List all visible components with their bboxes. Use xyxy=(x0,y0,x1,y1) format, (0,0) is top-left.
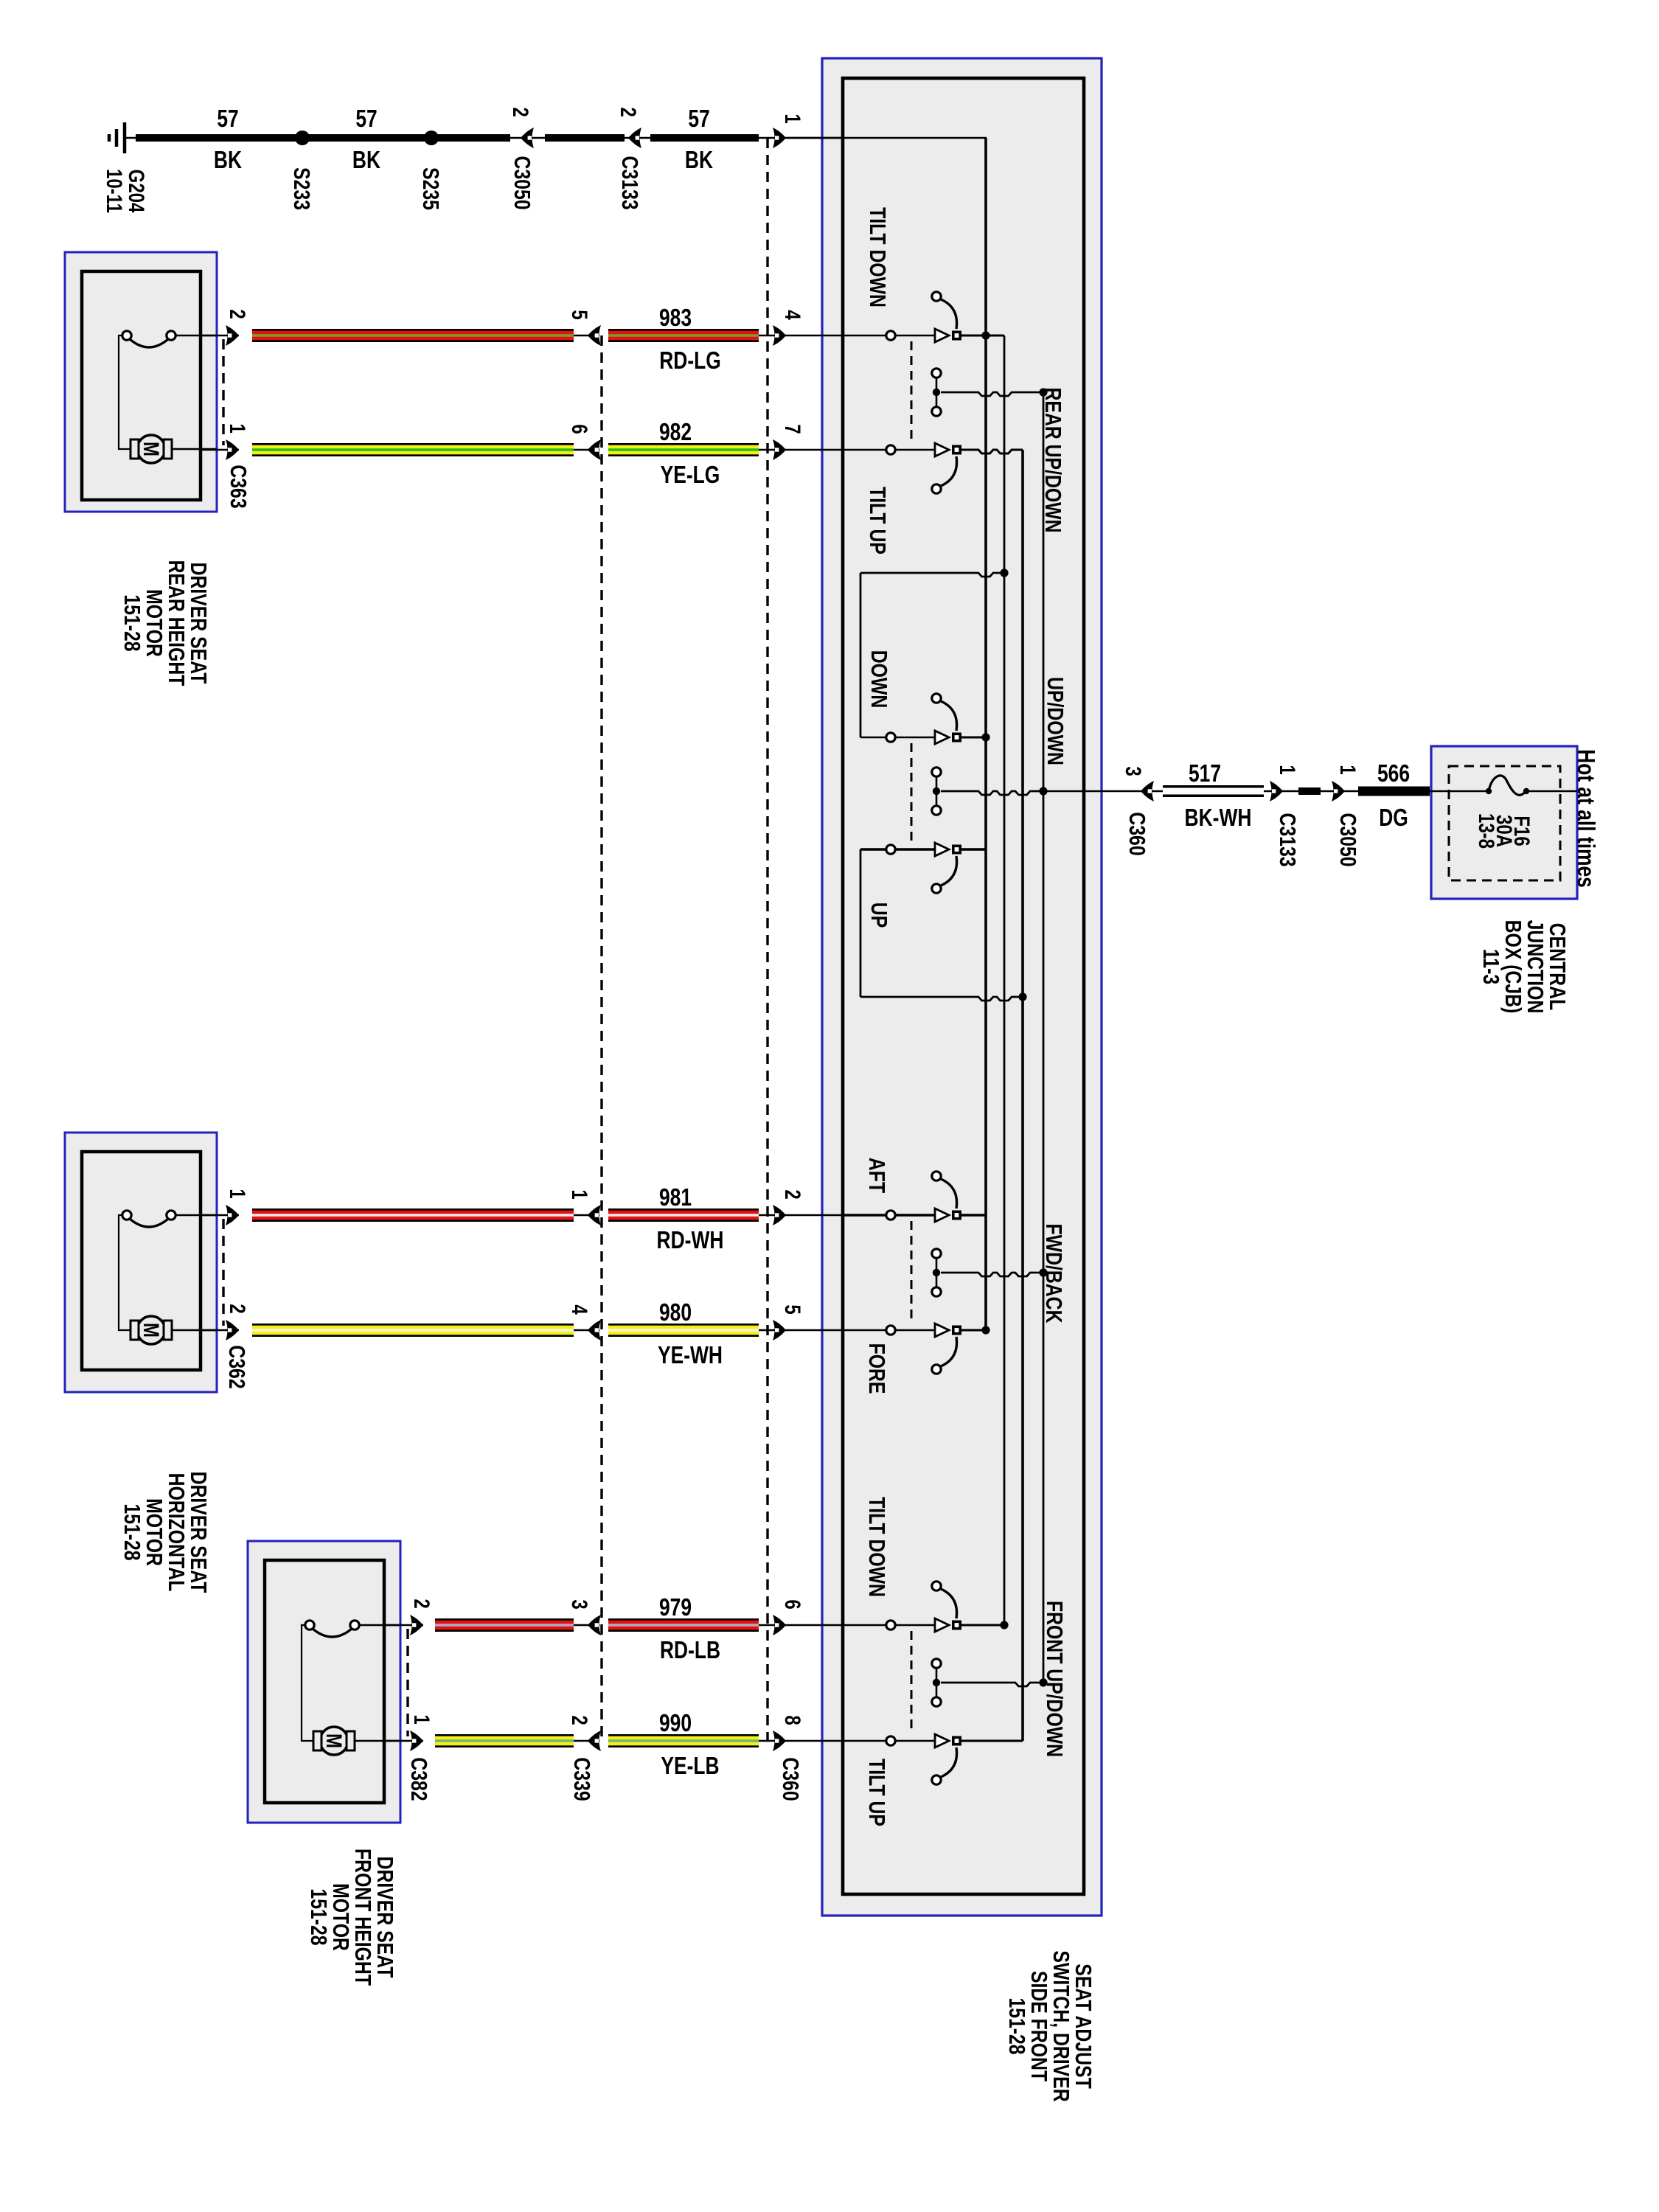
switch pin 3 exit wire xyxy=(1084,790,1163,793)
ground G204 xyxy=(124,137,136,139)
svg-text:979: 979 xyxy=(659,1594,692,1621)
wire 980 YE-WH segment 2 xyxy=(608,1324,759,1337)
central junction box (CJB) xyxy=(1431,746,1577,899)
svg-text:M: M xyxy=(321,1733,347,1748)
svg-text:RD-LB: RD-LB xyxy=(660,1637,720,1663)
svg-text:2: 2 xyxy=(225,309,250,319)
harness connector arrow pin 3 xyxy=(574,1624,599,1627)
switch UP (center) xyxy=(860,848,935,850)
svg-text:517: 517 xyxy=(1189,760,1221,787)
jumper harness segment xyxy=(1298,787,1321,795)
svg-text:2: 2 xyxy=(409,1599,434,1608)
svg-text:TILT UP: TILT UP xyxy=(864,1759,889,1826)
svg-text:BK: BK xyxy=(685,147,713,173)
svg-text:2: 2 xyxy=(225,1304,250,1313)
svg-text:RD-WH: RD-WH xyxy=(657,1227,724,1253)
svg-text:6: 6 xyxy=(567,424,592,434)
svg-text:8: 8 xyxy=(780,1715,805,1725)
svg-text:1: 1 xyxy=(409,1714,434,1724)
svg-text:FRONT UP/DOWN: FRONT UP/DOWN xyxy=(1042,1601,1067,1757)
switch pin 1 entry xyxy=(759,137,843,139)
connector C360 dashed line xyxy=(766,138,768,1741)
switch pin 5 entry xyxy=(759,1329,843,1332)
svg-text:1: 1 xyxy=(780,114,805,123)
svg-text:S235: S235 xyxy=(418,167,443,210)
wire 979 RD-LB segment 1 xyxy=(385,1624,423,1627)
wire 982 YE-LG segment 2 xyxy=(608,443,759,456)
svg-text:C363: C363 xyxy=(226,465,251,508)
DOWN sub-box xyxy=(860,573,1004,577)
svg-text:G20410-11: G20410-11 xyxy=(102,169,150,213)
svg-text:6: 6 xyxy=(780,1599,805,1609)
svg-text:YE-WH: YE-WH xyxy=(658,1342,723,1368)
driver seat rear height motor housing xyxy=(65,252,217,512)
svg-text:2: 2 xyxy=(567,1715,592,1725)
front junction dumbbell xyxy=(932,1659,941,1668)
harness connector arrow pin 1 xyxy=(574,1214,599,1217)
svg-text:57: 57 xyxy=(355,105,377,132)
svg-text:C3133: C3133 xyxy=(617,156,642,209)
wire 517 BK-WH xyxy=(1163,785,1264,788)
splice S233 xyxy=(295,131,310,145)
wire 982 YE-LG segment 1 xyxy=(201,449,239,451)
driver seat front height motor circuit breaker xyxy=(313,1629,352,1637)
svg-text:M: M xyxy=(139,1323,164,1338)
svg-text:57: 57 xyxy=(688,105,709,132)
svg-text:FWD/BACK: FWD/BACK xyxy=(1041,1224,1066,1324)
wire 57 BK segment 3 xyxy=(437,134,510,142)
harness connector arrow pin 2 xyxy=(574,1740,599,1742)
svg-text:TILT DOWN: TILT DOWN xyxy=(864,1497,889,1597)
connector C362 dashed line xyxy=(222,1219,224,1326)
connector C382 dashed line xyxy=(406,1629,408,1736)
svg-text:C339: C339 xyxy=(569,1757,594,1801)
svg-text:2: 2 xyxy=(508,107,533,116)
connector C3050 (B+) xyxy=(1321,790,1358,793)
svg-text:57: 57 xyxy=(217,105,238,132)
svg-text:4: 4 xyxy=(780,310,805,319)
svg-text:3: 3 xyxy=(1121,766,1146,776)
driver seat rear height motor circuit breaker xyxy=(130,339,168,347)
svg-text:4: 4 xyxy=(567,1304,592,1314)
mechanical link rear xyxy=(911,341,913,443)
svg-text:DG: DG xyxy=(1379,804,1408,831)
svg-text:5: 5 xyxy=(780,1304,805,1314)
svg-text:5: 5 xyxy=(567,310,592,319)
svg-text:C3133: C3133 xyxy=(1275,813,1300,866)
svg-text:1: 1 xyxy=(1275,765,1300,774)
wire 566 DG xyxy=(1358,787,1430,796)
svg-text:BK: BK xyxy=(214,147,242,173)
svg-text:983: 983 xyxy=(659,305,692,331)
switch pin 4 entry xyxy=(759,335,843,337)
wire 990 YE-LB segment 1 xyxy=(385,1740,423,1742)
mechanical link center xyxy=(911,743,913,843)
svg-text:1: 1 xyxy=(1335,765,1360,774)
driver seat front height motor internal wire xyxy=(302,1625,313,1741)
switch pin 7 entry xyxy=(759,449,843,451)
mechanical link fwd/back xyxy=(911,1221,913,1324)
fuse F16 30A xyxy=(1431,790,1489,793)
switch DOWN (center) xyxy=(860,737,935,739)
fwd/back junction dumbbell xyxy=(932,1249,941,1258)
wire 57 BK segment 4 xyxy=(545,134,625,142)
wire 57 BK segment 1 xyxy=(136,134,296,142)
svg-text:YE-LB: YE-LB xyxy=(661,1753,719,1779)
tilt-down output vertical xyxy=(1004,335,1006,1625)
harness connector arrow pin 5 xyxy=(574,335,599,337)
driver seat horizontal motor housing xyxy=(65,1133,217,1392)
driver seat horizontal motor motor M xyxy=(137,1316,165,1344)
splice S235 xyxy=(424,131,439,145)
connector C3050 (ground) xyxy=(510,137,545,139)
switch TILT DOWN (rear) xyxy=(843,335,935,337)
mechanical link front xyxy=(911,1631,913,1734)
wire 57 BK segment 5 xyxy=(650,134,759,142)
switch pin 2 entry xyxy=(759,1214,843,1217)
svg-text:F1630A13-8: F1630A13-8 xyxy=(1475,813,1535,849)
B+ distribution vertical xyxy=(1043,392,1045,1683)
svg-text:C3050: C3050 xyxy=(1335,813,1360,866)
svg-text:TILT DOWN: TILT DOWN xyxy=(865,207,890,307)
wire 979 RD-LB segment 2 xyxy=(608,1618,759,1632)
svg-text:566: 566 xyxy=(1377,760,1410,787)
switch AFT xyxy=(843,1214,935,1216)
wire 981 RD-WH segment 2 xyxy=(608,1208,759,1222)
svg-text:YE-LG: YE-LG xyxy=(661,462,720,488)
wire 981 RD-WH segment 1 xyxy=(201,1214,239,1217)
harness connector arrow pin 4 xyxy=(574,1329,599,1332)
UP sub-box xyxy=(860,849,862,997)
connector C3133 (ground) xyxy=(625,137,650,139)
svg-text:UP/DOWN: UP/DOWN xyxy=(1043,677,1068,765)
svg-text:2: 2 xyxy=(780,1189,805,1199)
svg-text:M: M xyxy=(139,442,164,456)
svg-text:1: 1 xyxy=(225,1189,250,1198)
svg-text:C3050: C3050 xyxy=(509,156,535,209)
connector C3133 (B+) xyxy=(1264,790,1298,793)
svg-text:7: 7 xyxy=(780,424,805,434)
svg-text:1: 1 xyxy=(567,1189,592,1199)
svg-text:980: 980 xyxy=(659,1299,692,1326)
svg-text:Hot at all times: Hot at all times xyxy=(1572,749,1599,888)
svg-text:REAR UP/DOWN: REAR UP/DOWN xyxy=(1040,388,1065,533)
wire 983 RD-LG segment 1 xyxy=(201,335,239,337)
seat adjust switch box xyxy=(822,58,1102,1916)
svg-text:FORE: FORE xyxy=(864,1343,889,1394)
svg-text:RD-LG: RD-LG xyxy=(659,347,721,374)
wire 980 YE-WH segment 1 xyxy=(201,1329,239,1332)
svg-text:S233: S233 xyxy=(289,167,314,210)
svg-text:BK: BK xyxy=(352,147,380,173)
svg-text:990: 990 xyxy=(659,1710,692,1736)
svg-text:1: 1 xyxy=(225,423,250,433)
svg-text:UP: UP xyxy=(866,902,891,928)
switch TILT UP (front) xyxy=(843,1740,935,1742)
svg-text:981: 981 xyxy=(659,1184,692,1211)
B+ junction dumbbell xyxy=(932,768,941,776)
connector C363 dashed line xyxy=(222,339,224,445)
driver seat front height motor housing xyxy=(248,1541,400,1823)
switch pin 6 entry xyxy=(759,1624,843,1627)
pin 1 row wire xyxy=(786,137,987,139)
tilt-up output vertical xyxy=(1021,450,1024,1741)
svg-text:3: 3 xyxy=(567,1599,592,1609)
svg-text:982: 982 xyxy=(659,419,692,445)
driver seat horizontal motor internal wire xyxy=(119,1215,131,1330)
svg-text:TILT UP: TILT UP xyxy=(865,487,890,554)
svg-text:2: 2 xyxy=(616,107,641,116)
B+ junction wire xyxy=(941,791,1043,795)
driver seat horizontal motor circuit breaker xyxy=(130,1219,168,1227)
svg-text:C382: C382 xyxy=(406,1757,431,1801)
switch pin 8 entry xyxy=(759,1740,843,1742)
svg-text:DOWN: DOWN xyxy=(866,650,891,709)
rear junction wire xyxy=(932,369,941,378)
svg-text:BK-WH: BK-WH xyxy=(1185,804,1252,831)
switch TILT UP (rear) xyxy=(843,449,935,451)
harness connector dashed line (mid) xyxy=(600,335,602,1741)
svg-text:C360: C360 xyxy=(778,1757,803,1801)
svg-text:AFT: AFT xyxy=(864,1158,889,1193)
wire 57 BK segment 2 xyxy=(308,134,425,142)
svg-text:C360: C360 xyxy=(1124,812,1150,855)
switch TILT DOWN (front) xyxy=(843,1624,935,1627)
ground bus (pin 1) vertical xyxy=(984,138,987,1330)
switch FORE xyxy=(843,1329,935,1332)
svg-text:C362: C362 xyxy=(224,1345,249,1388)
driver seat rear height motor internal wire xyxy=(119,335,131,449)
wire 990 YE-LB segment 2 xyxy=(608,1734,759,1747)
driver seat front height motor motor M xyxy=(320,1727,348,1755)
harness connector arrow pin 6 xyxy=(574,449,599,451)
driver seat rear height motor motor M xyxy=(137,435,165,463)
wire 983 RD-LG segment 2 xyxy=(608,329,759,342)
